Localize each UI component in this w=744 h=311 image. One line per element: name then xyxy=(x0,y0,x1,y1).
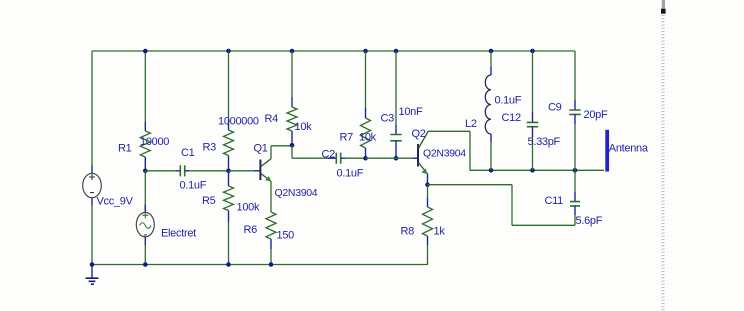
svg-text:C1: C1 xyxy=(181,147,195,159)
svg-text:L2: L2 xyxy=(465,118,477,130)
svg-text:5.6pF: 5.6pF xyxy=(576,215,603,227)
svg-text:R4: R4 xyxy=(265,113,279,125)
svg-text:Electret: Electret xyxy=(161,228,196,240)
wire R4 node to C2 xyxy=(292,145,328,158)
svg-text:1k: 1k xyxy=(434,226,446,238)
svg-text:10nF: 10nF xyxy=(399,106,423,118)
node C3/Q2 base junction xyxy=(394,156,399,161)
svg-text:10000: 10000 xyxy=(140,136,169,148)
transistor Q2 xyxy=(418,132,428,174)
wire Q2 emitter xyxy=(427,174,429,184)
capacitor C2 xyxy=(328,153,366,164)
junction R7 top rail xyxy=(363,49,368,54)
junction R4 top rail xyxy=(290,49,295,54)
node Q1 collector junction xyxy=(290,143,295,148)
scrollbar track top xyxy=(662,0,665,9)
junction L2 top rail xyxy=(489,49,494,54)
node Q2 emitter junction xyxy=(425,182,430,187)
capacitor C9 xyxy=(569,51,580,170)
junction bottom-left xyxy=(90,262,95,267)
svg-text:1000000: 1000000 xyxy=(218,116,259,128)
svg-text:Q1: Q1 xyxy=(254,143,268,155)
node R1/C1/mic junction xyxy=(143,169,148,174)
wire emitter to C11 xyxy=(428,185,576,226)
svg-text:Q2N3904: Q2N3904 xyxy=(423,148,466,160)
resistor R3 xyxy=(224,51,234,169)
resistor R5 xyxy=(224,171,234,265)
svg-text:R5: R5 xyxy=(202,195,216,207)
junction C3 top rail xyxy=(394,49,399,54)
junction R1 top rail xyxy=(143,49,148,54)
page edge dotted line xyxy=(661,15,664,311)
resistor R8 xyxy=(423,185,433,265)
wire R1 top xyxy=(144,51,146,122)
junction R3 top rail xyxy=(226,49,231,54)
svg-text:R6: R6 xyxy=(244,224,258,236)
wire Q1 emitter to R6 xyxy=(270,181,272,212)
junction C9/C11 node xyxy=(573,168,578,173)
resistor R4 xyxy=(287,51,297,144)
wire top rail xyxy=(92,50,575,52)
svg-text:0.1uF: 0.1uF xyxy=(495,95,522,107)
svg-text:Q2: Q2 xyxy=(412,128,426,140)
svg-text:Antenna: Antenna xyxy=(609,143,649,155)
svg-text:C3: C3 xyxy=(381,113,395,125)
inductor L2 xyxy=(485,51,491,170)
wire mid row R7 to Q2 xyxy=(366,157,418,159)
capacitor C3 xyxy=(390,51,401,156)
svg-text:5.33pF: 5.33pF xyxy=(528,136,561,148)
wire tank node row xyxy=(470,169,604,171)
transistor Q1 xyxy=(260,159,271,181)
scrollbar thumb xyxy=(661,9,666,14)
capacitor C1 xyxy=(145,165,228,176)
junction R6 bottom xyxy=(269,262,274,267)
svg-text:C12: C12 xyxy=(502,112,521,124)
wire Q2 collector to tank xyxy=(428,131,470,170)
node R7/C2 junction xyxy=(363,156,368,161)
resistor R7 xyxy=(361,51,371,156)
svg-text:C9: C9 xyxy=(548,102,562,114)
wire bottom rail xyxy=(92,264,428,266)
junction Electret bottom xyxy=(143,262,148,267)
svg-text:C11: C11 xyxy=(545,195,564,207)
svg-text:C2: C2 xyxy=(322,149,336,161)
svg-text:R1: R1 xyxy=(118,143,132,155)
wire left rail (Vcc column) xyxy=(91,51,93,265)
resistor R1 xyxy=(140,122,150,169)
ground xyxy=(86,265,99,285)
capacitor C12 xyxy=(527,51,538,170)
junction C12 bottom xyxy=(530,168,535,173)
svg-text:R8: R8 xyxy=(401,226,415,238)
svg-text:0.1uF: 0.1uF xyxy=(337,168,364,180)
source V1 Vcc_9V xyxy=(83,166,102,206)
node base Q1 junction xyxy=(226,169,231,174)
svg-text:R7: R7 xyxy=(340,132,354,144)
svg-text:Q2N3904: Q2N3904 xyxy=(275,187,318,199)
junction R5 bottom xyxy=(226,262,231,267)
svg-text:10k: 10k xyxy=(295,121,313,133)
antenna A1 xyxy=(605,130,609,172)
resistor R6 xyxy=(266,212,276,265)
svg-text:10k: 10k xyxy=(359,132,377,144)
svg-text:150: 150 xyxy=(277,230,295,242)
source MIC Electret xyxy=(136,171,154,265)
svg-text:0.1uF: 0.1uF xyxy=(180,180,207,192)
junction L2 bottom xyxy=(489,168,494,173)
capacitor C11 xyxy=(570,170,580,225)
svg-text:100k: 100k xyxy=(237,202,260,214)
svg-text:Vcc_9V: Vcc_9V xyxy=(97,196,134,208)
wire Q1 collector to R4 node xyxy=(271,146,292,159)
junction C12 top rail xyxy=(530,49,535,54)
svg-text:20pF: 20pF xyxy=(584,109,608,121)
svg-text:R3: R3 xyxy=(203,142,217,154)
wire Q1 base xyxy=(229,170,260,172)
